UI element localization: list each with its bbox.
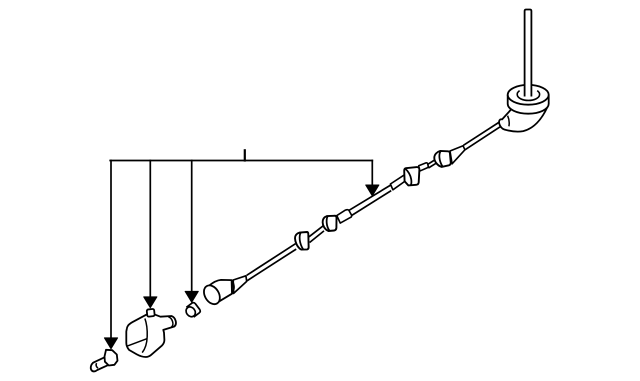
- grommet G2 bead: [323, 216, 337, 231]
- bolt: [91, 350, 118, 372]
- wire segment S3 G2 tube to G3: [348, 185, 392, 216]
- arrowhead to cable: [366, 185, 379, 196]
- sensor diagonal crease: [128, 339, 147, 346]
- grommet G4 bead: [434, 151, 451, 167]
- grommet G4 rim arc: [439, 151, 442, 167]
- sensor stub lip arc: [168, 317, 172, 327]
- sensor top nub: [147, 309, 155, 317]
- antenna mast: [525, 10, 532, 97]
- sensor body: [126, 309, 176, 357]
- arrowhead to sensor: [144, 297, 157, 308]
- grommet G1 rim arc: [300, 233, 304, 250]
- grommet G1 bead: [295, 232, 309, 250]
- wire segment S2 G1 to G2: [309, 226, 324, 243]
- antenna housing wedge: [499, 103, 547, 132]
- antenna base disc wall: [508, 95, 549, 114]
- bolt head: [105, 350, 118, 366]
- cable gland rim arc: [508, 116, 510, 127]
- grommet G2 rim arc: [327, 216, 330, 231]
- wire segment S5 G4 to antenna gland: [463, 121, 501, 149]
- leader drop to cable: [371, 161, 373, 187]
- base inner recess arc: [517, 91, 539, 101]
- bolt shaft tip arc: [96, 363, 98, 368]
- grommet G4 taper cone: [450, 146, 465, 164]
- grommet G3 entry tube: [390, 175, 407, 190]
- arrowhead to grommet part: [185, 291, 198, 302]
- arrowhead to bolt: [104, 338, 117, 349]
- wire segment S1 connector to G1: [247, 244, 297, 281]
- antenna base disc top: [508, 85, 549, 105]
- bolt shaft: [91, 357, 108, 371]
- grommet part (loose small cylinder): [184, 302, 202, 320]
- connector body cylinder: [209, 280, 232, 303]
- grommet G3 snout tube: [419, 163, 429, 171]
- sensor main body with stub: [126, 314, 176, 357]
- wire segment S4 G3 to G4: [428, 159, 436, 168]
- leader drop to bolt: [110, 161, 112, 340]
- callout leader line horizontal: [110, 160, 372, 162]
- grommet G3 body: [404, 167, 419, 185]
- connector face ellipse: [201, 283, 223, 308]
- label 1 tick: [244, 150, 246, 160]
- leader drop to sensor: [149, 161, 151, 299]
- sensor front face boundary: [142, 319, 147, 353]
- connector boot cone: [233, 276, 247, 294]
- grommet G2 snout tube: [337, 210, 352, 223]
- grommet G3 face arc: [405, 169, 411, 186]
- connector back rim arc: [232, 280, 234, 294]
- leader drop to grommet part: [191, 161, 193, 293]
